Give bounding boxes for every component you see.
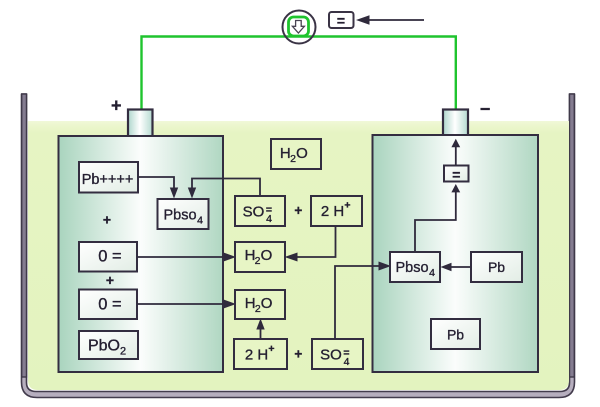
- box Pb (lower): [431, 319, 480, 349]
- arrow 2H+ low to H2O low: [256, 319, 264, 340]
- meter M1 circle: [283, 11, 316, 44]
- svg-text:=: =: [337, 13, 345, 29]
- svg-text:4: 4: [429, 267, 435, 279]
- svg-text:+: +: [294, 203, 302, 218]
- meter M1 green button: [289, 17, 309, 36]
- right terminal: [443, 110, 468, 136]
- svg-text:O: O: [296, 145, 308, 162]
- box Pbso4 (right electrode): [390, 252, 440, 282]
- svg-text:+: +: [106, 272, 114, 288]
- svg-text:+: +: [344, 200, 350, 212]
- svg-text:0 =: 0 =: [98, 248, 121, 266]
- arrow SO4 to Pbso4 (left): [188, 179, 260, 199]
- svg-text:Pbso: Pbso: [163, 208, 196, 224]
- right electrode plate: [373, 135, 539, 372]
- left electrode plate: [59, 136, 224, 372]
- svg-text:4: 4: [197, 215, 203, 227]
- svg-text:−: −: [480, 99, 491, 119]
- electrolyte: [28, 121, 569, 390]
- svg-text:Pbso: Pbso: [395, 260, 428, 276]
- box H2O top: [271, 139, 321, 169]
- svg-text:=: =: [452, 167, 460, 183]
- svg-text:=: =: [266, 204, 272, 216]
- arrow SO4 low to Pbso4 right: [335, 262, 391, 340]
- box O= second: [79, 290, 137, 320]
- wire: [142, 37, 456, 112]
- box SO4= upper: [235, 196, 285, 226]
- container (glass cell walls): [22, 94, 575, 398]
- arrow Pbso4 right to = box: [415, 184, 460, 251]
- box PbO2: [79, 331, 138, 359]
- box H2O mid: [235, 242, 285, 272]
- box EQTOP (=): [329, 12, 354, 28]
- arrow = box to terminal: [451, 139, 460, 165]
- svg-text:Pb++++: Pb++++: [82, 172, 134, 188]
- svg-text:+: +: [103, 212, 111, 228]
- svg-text:SO: SO: [243, 204, 265, 221]
- box Pb (right of Pbso4): [471, 252, 522, 282]
- box = (right electrode): [444, 166, 469, 183]
- arrow Pb to Pbso4 (right): [441, 263, 472, 271]
- svg-text:+: +: [111, 96, 122, 116]
- svg-text:O: O: [261, 295, 273, 312]
- box 2H+ low: [234, 339, 287, 369]
- box 2H+ upper: [311, 196, 362, 226]
- svg-text:2 H: 2 H: [245, 347, 268, 364]
- svg-text:Pb: Pb: [488, 259, 505, 275]
- box H2O low: [235, 290, 285, 319]
- left terminal: [128, 110, 153, 137]
- box Pbso4 (left electrode): [158, 199, 209, 229]
- box SO4= low: [312, 339, 363, 369]
- svg-text:PbO: PbO: [88, 338, 120, 355]
- arrow O=2 to H2O low: [137, 300, 236, 309]
- arrow Pb++++ to Pbso4 (left): [138, 177, 178, 199]
- box O= first: [79, 242, 137, 272]
- svg-text:0 =: 0 =: [98, 296, 121, 314]
- svg-text:O: O: [261, 247, 273, 264]
- svg-text:=: =: [343, 347, 349, 359]
- svg-text:+: +: [268, 343, 274, 355]
- svg-text:Pb: Pb: [447, 327, 464, 343]
- arrow 2H+ upper to H2O mid: [285, 226, 336, 262]
- svg-text:2 H: 2 H: [321, 203, 344, 220]
- arrow into EQTOP: [368, 19, 424, 21]
- svg-text:2: 2: [120, 346, 126, 358]
- container left wall shading: [22, 94, 27, 377]
- arrow O=1 to H2O mid: [137, 253, 236, 262]
- box Pb++++: [79, 162, 138, 193]
- svg-text:SO: SO: [320, 347, 342, 364]
- meter M1 down-arrow glyph: [292, 21, 304, 34]
- container right wall shading: [570, 94, 575, 377]
- svg-text:+: +: [294, 347, 302, 362]
